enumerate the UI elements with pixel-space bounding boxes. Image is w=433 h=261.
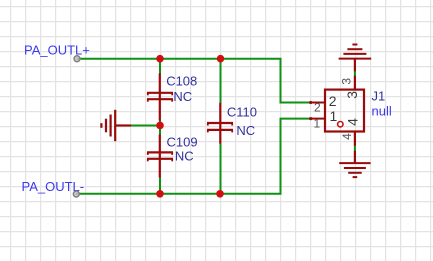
svg-text:C110: C110 <box>227 104 257 119</box>
wire C108 top stub <box>159 59 161 74</box>
pin1 dot circle <box>338 122 343 127</box>
ground top right (above J1) <box>339 45 372 72</box>
capacitor C110 <box>207 103 233 144</box>
wire J1 pin4 to ground <box>354 146 356 152</box>
connector J1 <box>309 76 392 146</box>
capacitor C108 <box>147 73 173 120</box>
junction node bottom-left <box>156 190 164 198</box>
svg-text:2: 2 <box>314 101 321 115</box>
net port pin circle top <box>74 56 80 62</box>
svg-text:4: 4 <box>340 133 354 140</box>
ground left (mid node) <box>101 110 131 141</box>
pin 2 stub <box>310 102 324 104</box>
capacitor C109 <box>147 134 173 177</box>
pin 4 stub <box>354 132 356 146</box>
wire net PA_OUTL- bottom horizontal <box>76 119 310 194</box>
svg-text:1: 1 <box>330 108 338 124</box>
svg-text:NC: NC <box>236 123 255 138</box>
svg-text:J1: J1 <box>372 88 386 103</box>
wire net PA_OUTL+ top horizontal <box>77 59 310 103</box>
svg-text:C108: C108 <box>166 74 197 89</box>
ground bottom right (below J1) <box>339 151 370 177</box>
wire C110 bottom stub <box>220 144 222 194</box>
svg-text:C109: C109 <box>167 134 198 149</box>
svg-text:NC: NC <box>175 149 194 164</box>
svg-text:1: 1 <box>314 117 321 131</box>
wire C108 bottom to mid node <box>159 120 161 135</box>
wire C109 bottom stub <box>159 177 161 194</box>
junction node top-right <box>217 55 225 63</box>
svg-text:null: null <box>372 104 392 119</box>
svg-text:NC: NC <box>173 89 192 104</box>
svg-text:3: 3 <box>340 78 354 85</box>
svg-text:3: 3 <box>344 91 360 99</box>
junction node top-left <box>156 55 164 63</box>
svg-text:4: 4 <box>345 118 361 126</box>
wire J1 pin3 to ground <box>354 71 356 76</box>
svg-text:2: 2 <box>329 93 337 109</box>
wire C110 top stub <box>220 59 222 103</box>
pin 3 stub <box>354 76 356 90</box>
net port pin circle bottom <box>73 191 79 197</box>
pin 1 stub <box>310 118 324 120</box>
wire ground to mid node <box>130 125 160 127</box>
junction node bottom-right <box>216 190 224 198</box>
svg-text:PA_OUTL+: PA_OUTL+ <box>24 43 90 58</box>
junction node middle <box>156 122 164 130</box>
